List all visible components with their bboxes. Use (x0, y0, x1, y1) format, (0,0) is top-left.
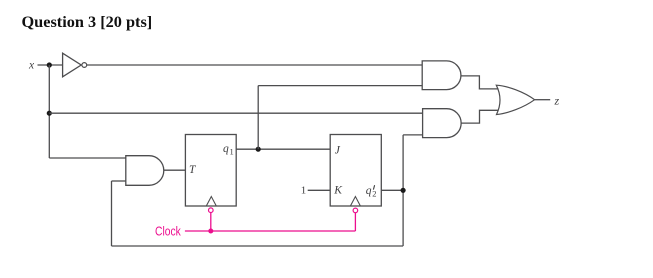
wire AND3 bottom input (112, 180, 126, 182)
wire AND3 output to T input (164, 169, 186, 171)
node clock junction (208, 229, 213, 234)
wire q1 branch to AND1 bottom input (258, 85, 422, 87)
wire inverter output to AND1 top input (87, 64, 422, 66)
inverter U1 (63, 53, 87, 77)
svg-text:1: 1 (301, 185, 307, 197)
node junction q2' (401, 188, 406, 193)
wire x to AND2 top input (49, 112, 422, 114)
and-gate A2 (bottom) (423, 109, 462, 138)
wire clock to U2 (210, 213, 212, 232)
clock triangle U2 (206, 197, 216, 207)
wire AND1 output to OR top input (461, 76, 499, 89)
svg-text:J: J (335, 145, 341, 157)
svg-text:T: T (189, 164, 197, 176)
wire q2' output (381, 189, 403, 191)
wire OR output (535, 99, 551, 101)
svg-text:1: 1 (230, 147, 234, 157)
wire vertical from x junction (48, 65, 50, 158)
svg-text:Clock: Clock (155, 223, 181, 238)
svg-text:Question 3 [20 pts]: Question 3 [20 pts] (22, 12, 153, 31)
svg-text:K: K (333, 185, 343, 197)
wire q1 branch vertical (257, 86, 259, 150)
wire feedback right vertical (402, 135, 404, 246)
svg-text:2: 2 (372, 189, 376, 199)
clock bubble U3 (353, 208, 358, 213)
wire feedback bottom horizontal (112, 245, 404, 247)
wire feedback left vertical (111, 181, 113, 246)
and-gate A1 (top) (422, 61, 461, 90)
or-gate U4 (496, 85, 534, 114)
svg-text:x: x (28, 59, 35, 71)
node junction x middle (47, 111, 52, 116)
and-gate A3 (left) (126, 156, 164, 186)
wire clock to U3 (354, 213, 356, 231)
svg-text:z: z (554, 94, 560, 108)
wire x input lead (38, 64, 63, 66)
wire clock horizontal (185, 230, 356, 232)
wire AND2 output to OR bottom input (461, 110, 498, 123)
svg-text:q: q (366, 185, 372, 197)
wire q1 output to J input (236, 148, 330, 150)
svg-text:q: q (223, 143, 229, 155)
wire to AND2 bottom input (403, 134, 423, 136)
wire x branch to AND3 top input (49, 157, 126, 159)
clock bubble U2 (209, 208, 214, 213)
clock triangle U3 (350, 197, 360, 207)
wire constant 1 to K input (308, 189, 331, 191)
flip-flop U3 (JK) (330, 135, 381, 207)
flip-flop U2 (T) (185, 135, 236, 207)
node junction q1 (256, 147, 261, 152)
node junction x top (47, 62, 52, 67)
